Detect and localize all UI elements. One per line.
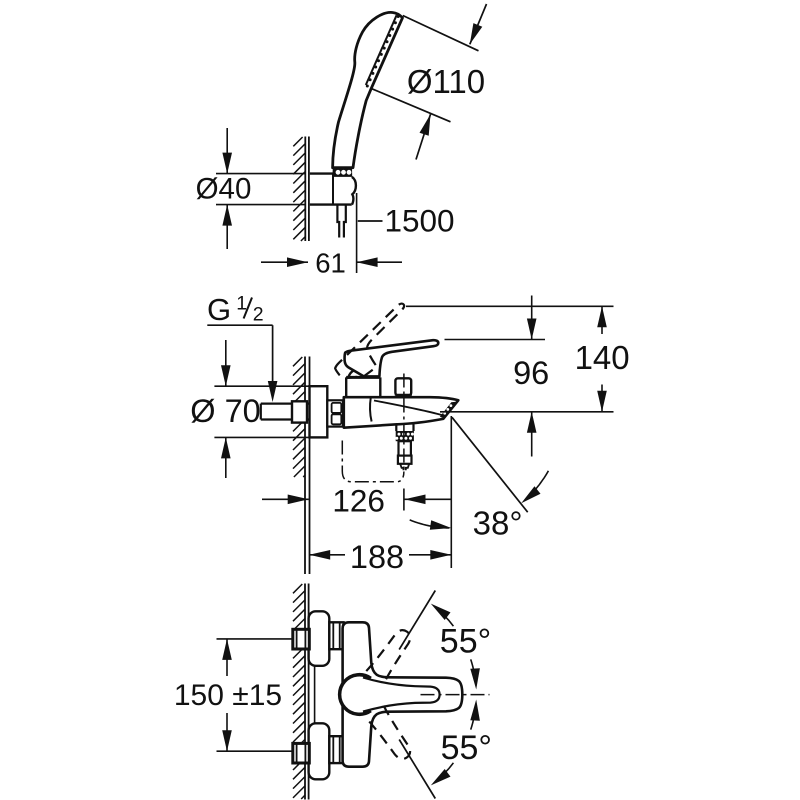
lever pivot ball [340, 675, 371, 715]
hand shower (head and handle) [333, 12, 403, 167]
extension tick outlet centerline [403, 489, 405, 511]
aerator [440, 402, 457, 419]
wall flange upper [309, 611, 330, 666]
extension line spout tip [450, 416, 452, 568]
outlet nipple [398, 456, 412, 464]
dimension 96 arrow lower [531, 412, 533, 457]
dimension Ø40 arrow upper [226, 128, 228, 174]
outlet centerline [403, 374, 405, 471]
spout angle line 38deg [452, 417, 528, 512]
cartridge dome [349, 368, 379, 377]
angle arc lower-ray [434, 763, 453, 783]
extension line lever tip [445, 339, 546, 341]
svg-text:55°: 55° [440, 622, 491, 660]
wall line (middle) [304, 357, 306, 575]
shower holder body [310, 174, 352, 205]
wall hatching (top view wall) [293, 137, 305, 241]
svg-text:1500: 1500 [385, 202, 455, 238]
svg-text:188: 188 [350, 539, 404, 575]
wall hatching (plan view wall) [293, 584, 305, 799]
shower face inner line [366, 15, 397, 85]
svg-text:Ø110: Ø110 [407, 63, 485, 100]
wall hatching (side view wall) [293, 357, 305, 477]
lever handle (solid position) [345, 340, 439, 376]
extension line spout level [440, 411, 614, 413]
extension line raised lever [406, 305, 614, 307]
angle arc upper-ray [434, 606, 453, 626]
svg-text:61: 61 [315, 247, 346, 278]
dimension 150 arrow lower [226, 713, 228, 751]
dimension 61 arrow right [357, 261, 402, 263]
handle knurled connector [332, 168, 352, 177]
spray face dots [397, 15, 400, 18]
ray 55deg lower [399, 740, 435, 799]
dimension Ø40 extension lines [216, 173, 305, 175]
dimension Ø110 extension line upper [403, 16, 479, 51]
wall line (top) [304, 137, 306, 242]
svg-text:G: G [207, 292, 231, 327]
lever raised 55deg (dashed) [366, 626, 415, 684]
dimension 140 arrow upper [601, 306, 603, 334]
inlet nut upper [293, 629, 310, 649]
outlet knurled nut [396, 431, 414, 441]
label 1500 leader [358, 220, 383, 222]
diverter knob [395, 378, 411, 395]
svg-text:126: 126 [332, 482, 385, 518]
lever centerline [421, 694, 490, 696]
union nut upper [329, 622, 343, 649]
hose guide centerline [342, 441, 404, 482]
dimension 188 [309, 554, 345, 556]
dimension 96 arrow upper [531, 296, 533, 340]
dimension Ø110 arrow lower [416, 114, 431, 159]
svg-text:96: 96 [513, 355, 549, 391]
inlet hex nut [292, 401, 307, 422]
dimension 150 extension lines [217, 638, 293, 640]
svg-text:140: 140 [575, 339, 630, 376]
lever inner contour [363, 678, 440, 712]
S-union nut [327, 400, 343, 426]
dimension Ø70 extension lines [214, 385, 309, 387]
lever lowered 55deg (dashed) [366, 706, 415, 764]
shower outlet neck [395, 424, 397, 431]
dimension 126 arrow right [405, 498, 452, 500]
svg-text:2: 2 [253, 304, 264, 326]
spout inner contour [374, 401, 444, 416]
G 1/2 leader [207, 324, 272, 326]
G 1/2 inlet pipe [261, 404, 310, 420]
inlet nut lower [293, 743, 310, 763]
dimension Ø70 arrow lower [225, 437, 227, 478]
svg-text:150 ±15: 150 ±15 [174, 679, 282, 712]
shower hose [337, 205, 345, 238]
angle arc lower 38deg [410, 520, 450, 528]
wall line (bottom) [304, 584, 306, 800]
svg-text:55°: 55° [441, 729, 492, 767]
angle arc upper 38deg [531, 471, 548, 494]
mounting plate line [314, 612, 316, 780]
dimension Ø40 arrow lower [226, 205, 228, 249]
outlet tube [399, 441, 411, 455]
svg-text:38°: 38° [473, 505, 523, 542]
dimension Ø70 arrow upper [225, 340, 227, 386]
lever handle (raised position, dashed) [327, 302, 424, 387]
dimension 140 arrow lower [601, 385, 603, 412]
outlet tip [400, 464, 409, 470]
angle arc upper-center [471, 659, 476, 684]
dimension Ø110 arrow upper [470, 4, 487, 44]
dimension 150 arrow upper [226, 639, 228, 676]
svg-text:Ø 70: Ø 70 [190, 393, 260, 429]
extension line holder knob [356, 193, 358, 273]
ray 55deg upper [399, 591, 435, 650]
svg-text:1: 1 [236, 293, 247, 315]
wall flange lower [309, 723, 330, 779]
dimension 61 arrow left [261, 261, 308, 263]
svg-text:Ø40: Ø40 [196, 173, 252, 206]
wall flange Ø70 [310, 386, 328, 437]
body-spout joint line [370, 397, 372, 421]
dimension Ø110 extension line lower [372, 89, 451, 122]
dimension 126 arrow left [262, 498, 309, 500]
mixer body and lever (plan view) [343, 622, 463, 766]
union nut lower [329, 736, 343, 763]
angle arc lower-center [471, 704, 476, 729]
mixer body and spout [344, 397, 459, 428]
